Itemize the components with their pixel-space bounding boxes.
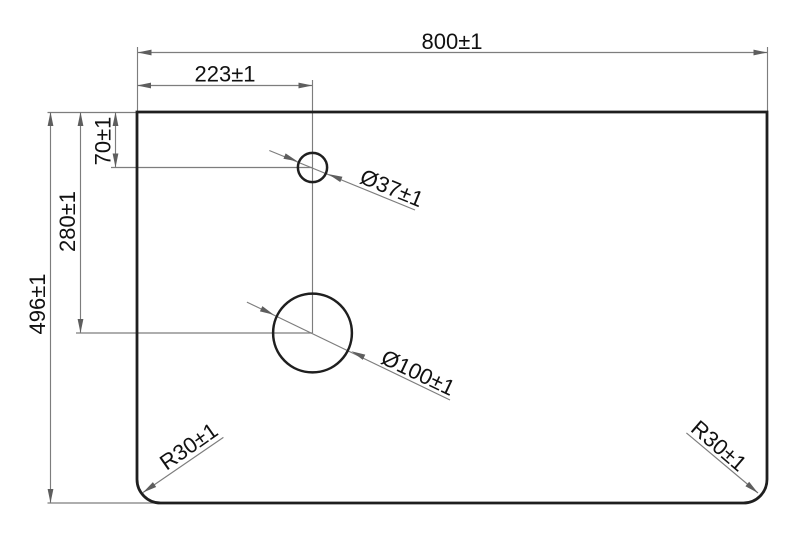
svg-text:70±1: 70±1 — [91, 117, 116, 166]
svg-text:800±1: 800±1 — [421, 29, 482, 54]
svg-text:223±1: 223±1 — [194, 62, 255, 87]
svg-text:496±1: 496±1 — [25, 273, 50, 334]
svg-text:280±1: 280±1 — [55, 191, 80, 252]
